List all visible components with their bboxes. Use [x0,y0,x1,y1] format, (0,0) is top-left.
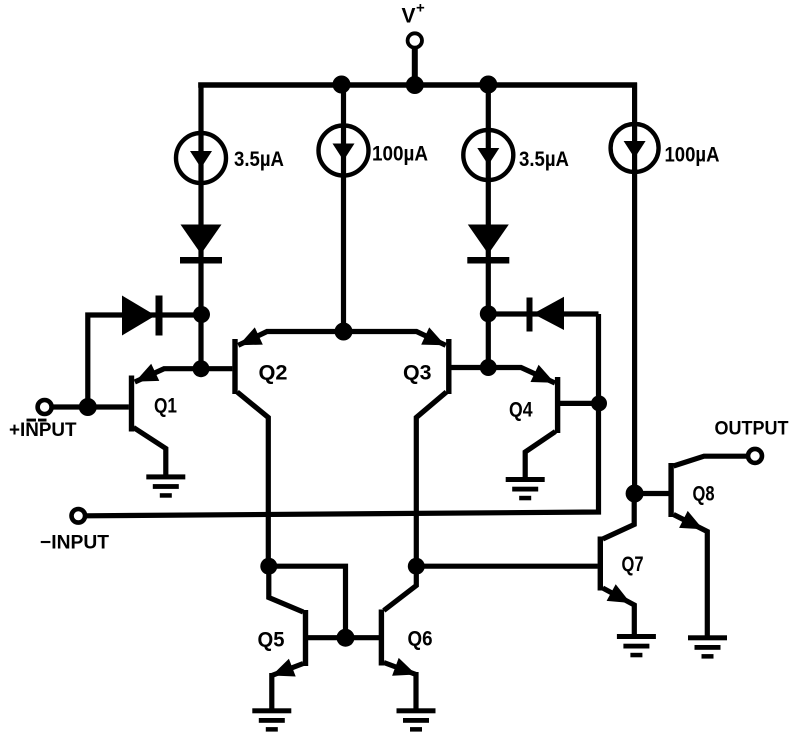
svg-text:OUTPUT: OUTPUT [715,417,789,439]
svg-text:3.5µA: 3.5µA [234,148,284,171]
svg-text:Q1: Q1 [154,395,177,418]
svg-text:Q5: Q5 [258,629,285,652]
svg-text:Q8: Q8 [693,483,715,506]
svg-text:3.5µA: 3.5µA [519,148,569,171]
svg-text:−INPUT: −INPUT [40,532,109,554]
svg-text:+: + [416,0,425,17]
svg-text:Q6: Q6 [408,628,433,651]
svg-text:100µA: 100µA [665,144,720,167]
svg-text:V: V [402,5,416,28]
svg-text:100µA: 100µA [372,143,428,166]
svg-text:Q3: Q3 [403,362,432,385]
svg-text:Q7: Q7 [622,553,644,576]
svg-text:Q4: Q4 [509,399,533,422]
svg-text:+INPUT: +INPUT [9,419,77,441]
svg-text:Q2: Q2 [259,362,288,385]
